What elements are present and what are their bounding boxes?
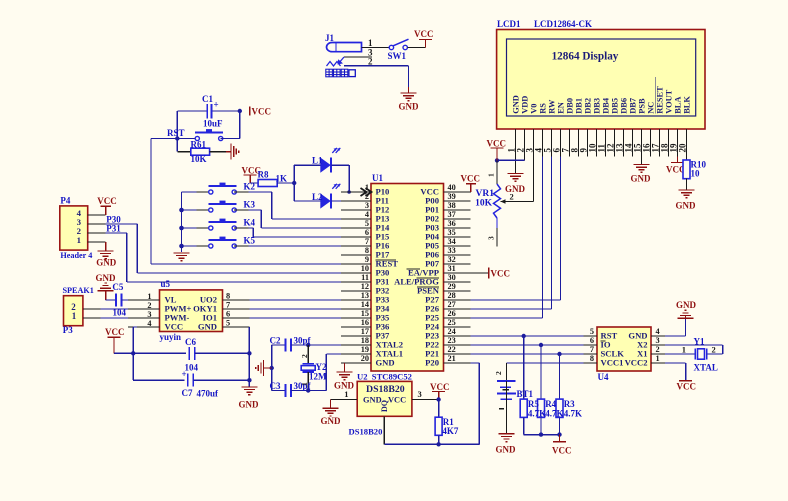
svg-text:NC: NC (647, 102, 656, 114)
svg-text:VDD: VDD (521, 96, 530, 114)
svg-text:R8: R8 (258, 170, 269, 180)
svg-text:22: 22 (448, 345, 456, 354)
svg-text:10: 10 (361, 264, 369, 273)
svg-text:PSB: PSB (638, 98, 647, 114)
svg-text:37: 37 (448, 210, 456, 219)
svg-text:VCC2: VCC2 (625, 358, 648, 368)
svg-text:3: 3 (147, 310, 151, 319)
svg-text:2: 2 (147, 301, 151, 310)
svg-text:C1: C1 (202, 94, 213, 104)
svg-text:RESET: RESET (656, 86, 665, 114)
svg-text:25: 25 (448, 318, 456, 327)
svg-text:U1: U1 (372, 173, 383, 183)
svg-text:2: 2 (368, 57, 373, 67)
svg-text:29: 29 (448, 282, 456, 291)
svg-text:10K: 10K (475, 199, 493, 209)
svg-text:K5: K5 (244, 236, 256, 246)
svg-text:1: 1 (682, 345, 686, 355)
svg-text:20: 20 (361, 354, 369, 363)
svg-text:GND: GND (631, 174, 652, 184)
svg-text:K3: K3 (244, 200, 256, 210)
svg-text:GND: GND (376, 358, 395, 368)
svg-text:u5: u5 (161, 279, 171, 289)
svg-text:VOUT: VOUT (665, 89, 674, 113)
svg-text:DB0: DB0 (566, 98, 575, 114)
svg-text:GND: GND (96, 258, 117, 268)
svg-text:BLK: BLK (683, 96, 692, 114)
svg-text:VCC: VCC (552, 446, 572, 456)
svg-text:DB5: DB5 (611, 98, 620, 114)
svg-text:2: 2 (656, 345, 660, 354)
svg-text:XTAL: XTAL (694, 363, 718, 373)
svg-text:R5: R5 (528, 399, 539, 409)
svg-text:2: 2 (494, 371, 503, 375)
svg-text:VCC: VCC (388, 396, 406, 405)
svg-text:C6: C6 (185, 337, 196, 347)
svg-text:32: 32 (448, 255, 456, 264)
svg-text:6: 6 (226, 309, 230, 318)
svg-text:C2: C2 (270, 336, 281, 346)
svg-text:1: 1 (487, 173, 496, 177)
svg-text:17: 17 (361, 327, 369, 336)
svg-text:DS18B20: DS18B20 (349, 427, 383, 437)
svg-text:12864 Display: 12864 Display (552, 51, 619, 63)
svg-text:6: 6 (590, 336, 594, 345)
svg-text:P31: P31 (106, 223, 121, 233)
svg-text:VCC: VCC (461, 174, 481, 184)
svg-text:DQ: DQ (380, 400, 389, 412)
svg-text:SPEAK1: SPEAK1 (63, 286, 94, 295)
svg-text:12: 12 (361, 282, 369, 291)
svg-text:40: 40 (448, 183, 456, 192)
svg-text:RS: RS (539, 103, 548, 114)
svg-text:VR1: VR1 (476, 189, 495, 199)
svg-text:4.7K: 4.7K (545, 409, 563, 419)
svg-text:35: 35 (448, 228, 456, 237)
svg-text:GND: GND (676, 201, 697, 211)
svg-text:GND: GND (512, 95, 521, 114)
svg-text:28: 28 (448, 291, 456, 300)
svg-text:EN: EN (557, 102, 566, 114)
svg-text:470uf: 470uf (197, 389, 220, 399)
svg-text:VCC: VCC (430, 382, 450, 392)
svg-text:VCC: VCC (414, 29, 434, 39)
svg-text:4.7K: 4.7K (528, 409, 546, 419)
svg-text:yuyin: yuyin (160, 332, 182, 342)
svg-text:4: 4 (656, 327, 660, 336)
svg-text:13: 13 (361, 291, 369, 300)
svg-text:11: 11 (361, 273, 369, 282)
svg-text:R3: R3 (564, 399, 575, 409)
svg-text:BT1: BT1 (517, 389, 534, 399)
svg-text:GND: GND (198, 322, 217, 332)
svg-text:1: 1 (72, 311, 77, 321)
svg-text:DB6: DB6 (620, 98, 629, 114)
svg-text:1: 1 (656, 354, 660, 363)
svg-text:8: 8 (365, 246, 369, 255)
svg-text:P3: P3 (63, 325, 73, 335)
svg-text:5: 5 (365, 219, 369, 228)
svg-text:L2: L2 (312, 192, 323, 202)
svg-text:36: 36 (448, 219, 456, 228)
svg-text:10uF: 10uF (203, 119, 223, 129)
svg-text:4.7K: 4.7K (564, 409, 582, 419)
svg-text:VCC: VCC (677, 382, 697, 392)
svg-text:U4: U4 (598, 372, 609, 382)
svg-text:DB3: DB3 (593, 98, 602, 114)
svg-text:LCD12864-CK: LCD12864-CK (534, 19, 592, 29)
svg-text:7: 7 (365, 237, 369, 246)
svg-text:30: 30 (448, 273, 456, 282)
svg-text:8: 8 (226, 291, 230, 300)
svg-text:GND: GND (505, 184, 526, 194)
svg-text:P20: P20 (425, 358, 439, 368)
svg-text:19: 19 (361, 345, 369, 354)
svg-text:GND: GND (239, 400, 260, 410)
svg-text:Y1: Y1 (694, 337, 705, 347)
svg-text:5: 5 (226, 318, 230, 327)
svg-text:24: 24 (448, 327, 456, 336)
svg-text:104: 104 (113, 308, 127, 318)
svg-text:6: 6 (365, 228, 369, 237)
svg-text:R4: R4 (545, 399, 556, 409)
svg-text:P4: P4 (60, 195, 70, 205)
svg-text:DB4: DB4 (602, 97, 611, 114)
svg-text:12M: 12M (309, 372, 327, 382)
svg-text:VCC: VCC (97, 196, 117, 206)
svg-text:30pf: 30pf (294, 381, 312, 391)
svg-text:C3: C3 (270, 381, 281, 391)
svg-text:1: 1 (77, 235, 81, 245)
svg-text:DB7: DB7 (629, 98, 638, 114)
svg-text:GND: GND (363, 396, 382, 405)
svg-text:GND: GND (496, 445, 517, 455)
svg-text:4K7: 4K7 (442, 426, 459, 436)
svg-text:8: 8 (590, 354, 594, 363)
svg-text:VCC1: VCC1 (601, 358, 624, 368)
svg-text:GND: GND (321, 416, 342, 426)
svg-text:2: 2 (712, 345, 716, 355)
svg-text:C5: C5 (112, 282, 123, 292)
svg-text:RST: RST (167, 128, 185, 138)
svg-text:31: 31 (448, 264, 456, 273)
svg-text:K4: K4 (244, 218, 256, 228)
svg-text:BLA: BLA (674, 97, 683, 114)
svg-text:C7: C7 (182, 388, 193, 398)
svg-text:3: 3 (656, 336, 660, 345)
svg-text:14: 14 (361, 300, 369, 309)
svg-text:VCC: VCC (165, 322, 184, 332)
svg-text:VCC: VCC (105, 327, 125, 337)
svg-text:LCD1: LCD1 (497, 19, 521, 29)
svg-text:10: 10 (691, 169, 701, 179)
svg-text:21: 21 (448, 354, 456, 363)
svg-text:26: 26 (448, 309, 456, 318)
svg-text:1: 1 (368, 38, 373, 48)
svg-text:15: 15 (361, 309, 369, 318)
svg-text:30pf: 30pf (294, 336, 312, 346)
svg-text:9: 9 (365, 255, 369, 264)
svg-text:DS18B20: DS18B20 (366, 384, 405, 395)
svg-text:33: 33 (448, 246, 456, 255)
svg-text:SW1: SW1 (388, 51, 407, 61)
svg-text:R61: R61 (191, 140, 207, 150)
svg-text:L1: L1 (312, 155, 323, 165)
svg-text:23: 23 (448, 336, 456, 345)
svg-text:VCC: VCC (491, 269, 511, 279)
svg-text:18: 18 (361, 336, 369, 345)
svg-text:RW: RW (548, 99, 557, 114)
svg-text:+: + (214, 100, 219, 110)
svg-text:2: 2 (510, 192, 514, 202)
svg-text:27: 27 (448, 300, 456, 309)
svg-text:3: 3 (487, 236, 496, 240)
svg-text:1K: 1K (276, 174, 288, 184)
svg-text:U2 STC89C52: U2 STC89C52 (357, 372, 412, 382)
svg-text:4: 4 (365, 210, 369, 219)
svg-text:Header 4: Header 4 (60, 251, 92, 260)
svg-text:+: + (182, 369, 187, 379)
svg-text:J1: J1 (325, 33, 335, 43)
svg-text:34: 34 (448, 237, 456, 246)
svg-text:2: 2 (300, 354, 309, 358)
svg-text:7: 7 (226, 300, 230, 309)
svg-text:39: 39 (448, 192, 456, 201)
svg-text:1: 1 (147, 292, 151, 301)
svg-text:Y2: Y2 (316, 362, 327, 372)
svg-text:7: 7 (590, 345, 594, 354)
svg-text:3: 3 (365, 201, 369, 210)
svg-text:DB1: DB1 (575, 98, 584, 114)
svg-text:GND: GND (399, 102, 420, 112)
svg-text:38: 38 (448, 201, 456, 210)
svg-text:10K: 10K (191, 154, 207, 164)
svg-text:DB2: DB2 (584, 98, 593, 114)
svg-text:VCC: VCC (252, 107, 272, 117)
svg-text:3: 3 (418, 389, 422, 399)
svg-text:5: 5 (590, 327, 594, 336)
svg-text:VCC: VCC (487, 139, 507, 149)
svg-text:1: 1 (344, 389, 348, 399)
svg-text:GND: GND (676, 300, 697, 310)
svg-text:V0: V0 (530, 104, 539, 114)
svg-text:16: 16 (361, 318, 369, 327)
